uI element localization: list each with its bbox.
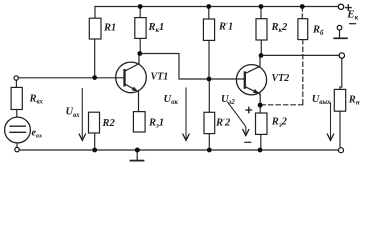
wire Rk1 top stub: [139, 7, 141, 18]
junction dot VT2 emitter / Rb dashed: [258, 103, 263, 108]
junction dot base divider R1-R2: [92, 75, 97, 80]
junction dot Rk2 on supply rail: [259, 4, 264, 9]
wire Rb dashed bottom lead down: [302, 40, 304, 105]
resistor Rk2: [256, 19, 267, 40]
wire Rk1 bottom stub to collector node: [139, 38, 141, 53]
junction dot VT1 collector / Rk1: [137, 51, 142, 56]
resistor Rk1: [135, 18, 146, 39]
resistor R2: [89, 112, 100, 133]
wire Rn bottom stub: [339, 111, 341, 148]
-Ek terminal stem and bar: [334, 30, 347, 38]
svg-text:R′1: R′1: [218, 22, 233, 33]
ground stem: [136, 150, 138, 160]
svg-text:Rвх: Rвх: [29, 93, 44, 105]
svg-text:VT2: VT2: [272, 73, 290, 84]
wire Re2 bottom stub: [260, 134, 262, 150]
junction dot Re2 on bottom rail: [258, 148, 263, 153]
terminal output bottom (end of rail): [339, 148, 344, 153]
plus sign of Ek: [346, 5, 351, 10]
resistor Re2: [256, 113, 268, 134]
svg-text:Rэ1: Rэ1: [148, 117, 164, 129]
resistor R1: [89, 18, 101, 39]
terminal input bottom: [15, 147, 19, 151]
resistor Rb: [298, 19, 308, 40]
source e_vx inner line 2: [10, 131, 26, 133]
terminal input top: [14, 76, 18, 80]
wire R'1 bottom stub: [208, 40, 210, 79]
junction dot Rb on supply rail: [300, 4, 305, 9]
wire R'2 top stub: [208, 79, 210, 112]
svg-text:Eк: Eк: [346, 9, 358, 22]
wire Rk2 top stub: [260, 7, 262, 19]
wire R'1 top stub: [208, 7, 210, 20]
svg-text:VT1: VT1: [151, 71, 169, 82]
wire R1 bottom stub: [94, 39, 96, 78]
wire input source middle stub: [16, 110, 18, 118]
junction dot Rk1 on supply rail: [138, 4, 143, 9]
svg-text:eвх: eвх: [32, 127, 43, 139]
svg-text:Uок: Uок: [164, 94, 179, 106]
plus sign near VT2 emitter (Ue2): [246, 107, 251, 112]
arrow U_vx: [79, 89, 85, 141]
junction dot R'1 / VT2 base: [207, 77, 212, 82]
minus sign of Ek: [350, 23, 356, 25]
resistor Rn (load): [334, 89, 345, 111]
wire input line from terminal to VT1 base: [18, 77, 124, 79]
wire R1 top stub: [94, 7, 96, 19]
wire R2 bottom stub: [94, 133, 96, 150]
arrow U_ok (VT1 collector to common): [183, 88, 189, 140]
wire input source bottom stub: [16, 143, 18, 148]
svg-text:Rк2: Rк2: [271, 22, 288, 34]
terminal +Ek on supply rail: [338, 4, 343, 9]
svg-text:Uвых: Uвых: [312, 94, 331, 106]
svg-text:R1: R1: [103, 23, 116, 34]
ground bar: [131, 160, 144, 162]
resistor R'2: [204, 112, 215, 133]
svg-text:Uвх: Uвх: [66, 107, 81, 119]
wire top supply rail: [95, 6, 340, 8]
terminal output top: [339, 53, 344, 58]
wire input source top stub: [15, 80, 17, 87]
junction dot R'2 on bottom rail: [207, 148, 212, 153]
svg-text:Rк1: Rк1: [148, 22, 165, 34]
junction dot Rk2 / VT2 collector / output: [259, 53, 264, 58]
wire bottom common rail: [19, 149, 338, 151]
wire VT1 collector to VT2 base (interstage): [140, 54, 245, 80]
minus sign near Ue2 arrow bottom: [245, 141, 251, 143]
transistor VT1: [116, 54, 147, 112]
resistor Re1: [133, 112, 145, 132]
svg-text:Rэ2: Rэ2: [271, 117, 288, 129]
arrow U_e2 (diagonal then down): [228, 102, 249, 136]
arrow U_vyx: [327, 103, 333, 141]
junction dot R2 on bottom rail: [92, 148, 97, 153]
wire Rb dashed lead to VT2 emitter node: [263, 104, 303, 106]
resistor R'1: [203, 19, 214, 40]
wire Rn top lead: [340, 58, 342, 89]
resistor Rvx (source internal resistance): [11, 87, 22, 109]
wire Rb dashed top lead: [301, 7, 303, 19]
wire VT2 collector node to output terminal: [261, 54, 339, 56]
wire R'2 bottom stub: [208, 134, 210, 150]
wire VT2 emitter node to Re2: [259, 95, 261, 113]
terminal -Ek: [337, 25, 342, 30]
transistor VT2: [236, 55, 266, 95]
junction dot R'1 on supply rail: [206, 4, 211, 9]
source e_vx circle: [5, 117, 31, 143]
svg-text:R′2: R′2: [215, 117, 231, 128]
wire Rk2 bottom stub: [260, 40, 262, 55]
svg-text:R2: R2: [102, 118, 116, 129]
svg-text:Rб: Rб: [312, 25, 324, 37]
junction dot Re1 / ground on bottom rail: [135, 148, 140, 153]
svg-text:Uэ2: Uэ2: [221, 94, 235, 106]
svg-text:Rн: Rн: [348, 94, 360, 106]
source e_vx inner line 1: [10, 125, 26, 127]
